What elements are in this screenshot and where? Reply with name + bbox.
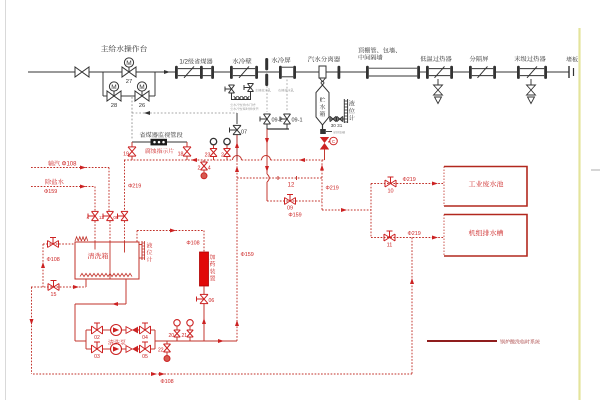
wire separator drain riser <box>266 129 268 174</box>
svg-text:1/2级省煤器: 1/2级省煤器 <box>179 57 213 66</box>
heat-exchanger LT superheater <box>426 66 429 79</box>
arrow dosing right <box>170 229 176 233</box>
arrow riser up1 <box>235 142 239 148</box>
wire main feedwater line <box>28 71 75 73</box>
valve 21 <box>187 330 193 337</box>
arrow riser up3 <box>235 320 239 326</box>
tank bottom elbow <box>322 125 324 131</box>
svg-text:清洗箱: 清洗箱 <box>88 252 109 262</box>
svg-text:Φ219: Φ219 <box>326 184 339 192</box>
svg-text:汽水分离器: 汽水分离器 <box>308 55 341 64</box>
wire relief to header <box>324 150 326 161</box>
svg-text:Φ219: Φ219 <box>403 175 416 183</box>
svg-text:07: 07 <box>241 128 247 136</box>
arrow valve15 right <box>73 285 79 289</box>
arrow bottom right2 <box>159 372 165 376</box>
valve 31 <box>337 116 343 121</box>
wire suction to manifold <box>75 340 86 342</box>
wire dosing drop <box>203 231 205 253</box>
wire inlet drops to tank <box>94 221 96 242</box>
svg-text:04: 04 <box>142 334 148 341</box>
motor valve 27 <box>122 67 136 77</box>
check valve 2 <box>126 346 132 353</box>
motor valve 28 <box>107 91 121 101</box>
arrow into drain tank <box>432 236 438 240</box>
wire drain header U <box>232 92 251 100</box>
svg-text:箱: 箱 <box>319 109 325 118</box>
svg-text:除盐水: 除盐水 <box>45 177 65 186</box>
tank bottom hatch <box>80 273 132 276</box>
arrow monitor flow <box>144 111 150 115</box>
wire dosing line <box>137 230 204 232</box>
valve 11 <box>384 231 395 241</box>
valve 07 <box>236 113 238 124</box>
svg-text:腐蚀指示片: 腐蚀指示片 <box>145 146 174 155</box>
valve 14 tank left <box>48 238 59 248</box>
svg-text:末级过热器: 末级过热器 <box>514 54 546 63</box>
svg-text:锅炉酸洗临时系统: 锅炉酸洗临时系统 <box>500 339 540 346</box>
panel bar lower <box>265 74 268 86</box>
svg-text:30 31: 30 31 <box>331 123 343 129</box>
vessel storage tank <box>316 85 329 125</box>
relief valve below tank <box>320 137 329 143</box>
valve 09 <box>285 195 296 205</box>
valve waterwall drain right <box>244 84 254 92</box>
svg-text:27: 27 <box>126 76 132 85</box>
svg-text:09-1: 09-1 <box>292 116 303 124</box>
svg-text:水冷壁: 水冷壁 <box>232 57 252 66</box>
valve 18 <box>186 142 188 147</box>
svg-text:2: 2 <box>221 151 224 159</box>
gauge 20 <box>174 320 180 326</box>
svg-text:省煤器监视管段: 省煤器监视管段 <box>139 130 183 139</box>
wire pump branch top <box>86 329 92 331</box>
valve 06 <box>197 294 209 303</box>
svg-text:4: 4 <box>86 215 89 221</box>
heat-exchanger final superheater <box>517 66 520 79</box>
svg-text:05: 05 <box>142 353 148 360</box>
wire bypass right leg <box>154 72 156 96</box>
svg-text:28: 28 <box>111 100 117 109</box>
arrow header left2 <box>299 158 305 162</box>
wire drain 09-2 upper <box>266 86 268 112</box>
wire aux steam <box>31 167 109 169</box>
wire waste branch riser <box>370 184 372 238</box>
wire dosing stub to tank <box>136 231 138 243</box>
drain valve final superheater <box>530 79 532 85</box>
gauge sample 24 <box>201 173 207 179</box>
wire pump manifold left <box>85 330 87 349</box>
frame left gray line <box>5 0 7 400</box>
gauge 23 <box>210 138 216 144</box>
wire left drop x33 <box>31 287 33 374</box>
gauge 21 <box>187 320 193 326</box>
arrow aux steam <box>80 166 86 170</box>
valve 19 <box>131 142 133 147</box>
valve 1-14 <box>88 211 99 220</box>
svg-text:中间隔墙: 中间隔墙 <box>358 53 383 62</box>
panel bar upper <box>265 58 268 70</box>
wire dosing to discharge <box>203 304 205 341</box>
arrow tank left up <box>41 262 45 268</box>
svg-text:Φ219: Φ219 <box>408 229 421 237</box>
valve 1-08 <box>118 211 129 220</box>
svg-text:Φ108: Φ108 <box>186 239 199 247</box>
svg-text:13: 13 <box>99 215 105 221</box>
tank vent hatch <box>75 237 88 241</box>
arrow drain down2 <box>265 166 269 172</box>
wire waste riser <box>321 160 323 210</box>
wire line to drain tank <box>371 237 444 239</box>
valve 15 <box>48 281 59 291</box>
valve waterwall drain left <box>225 85 235 93</box>
svg-text:19: 19 <box>123 150 129 158</box>
wire suction drop2 <box>74 304 76 341</box>
valve 22 <box>166 341 168 344</box>
valve 09-2 <box>260 114 271 124</box>
svg-text:Φ108: Φ108 <box>160 377 173 385</box>
svg-text:15: 15 <box>51 290 57 298</box>
wire drain join <box>266 124 268 129</box>
svg-text:M: M <box>111 82 116 91</box>
arrow suction <box>112 302 118 306</box>
wire discharge riser dashed <box>236 160 238 341</box>
wire tank left line <box>43 243 75 245</box>
arrow left drop down <box>30 319 34 325</box>
svg-text:26: 26 <box>139 100 145 109</box>
pipe roof tubes <box>366 66 369 79</box>
svg-text:M: M <box>139 82 144 91</box>
hop header over 07 line <box>233 156 242 161</box>
wire waste horizontal <box>322 209 371 211</box>
wire dosing below <box>203 286 205 294</box>
pump 2 <box>111 344 122 355</box>
wire line 12 <box>237 177 322 179</box>
svg-text:Φ108: Φ108 <box>47 255 60 263</box>
svg-text:18: 18 <box>178 150 184 158</box>
svg-text:10: 10 <box>387 187 393 195</box>
vessel steam separator <box>319 66 326 78</box>
svg-text:水冷屏: 水冷屏 <box>271 56 291 65</box>
wire monitor pipe <box>132 141 151 143</box>
svg-text:11: 11 <box>387 241 393 249</box>
valve 02 <box>92 323 103 334</box>
wire bottom drain line <box>33 373 412 375</box>
wire line 09 <box>267 200 322 202</box>
valve 09-1 <box>280 114 291 124</box>
wire bypass left leg <box>102 72 104 96</box>
wire aux steam drop <box>108 168 110 212</box>
valve 24 <box>203 160 205 162</box>
arrow bottom right1 <box>151 372 157 376</box>
svg-text:20: 20 <box>168 332 174 339</box>
drain header small valves <box>234 96 238 100</box>
wire line to pool <box>371 183 444 185</box>
flange after separator <box>338 66 341 79</box>
wire tank left drop <box>42 244 44 287</box>
box industrial waste pool <box>444 167 527 207</box>
drum section <box>279 66 282 79</box>
drain valve LT superheater <box>437 79 439 85</box>
wire tank suction drop <box>125 279 127 304</box>
wire tank drain stub <box>85 279 87 287</box>
valve 25 <box>224 149 231 157</box>
svg-text:低温过热器: 低温过热器 <box>420 54 452 63</box>
frame right tick <box>591 169 600 171</box>
svg-text:Φ159: Φ159 <box>44 187 57 195</box>
wire monitor dashed line <box>132 112 237 114</box>
heat-exchanger economizer <box>175 66 178 79</box>
arrow waste up <box>320 165 324 171</box>
svg-text:分隔屏: 分隔屏 <box>470 54 490 63</box>
wire drain 09-1 upper <box>286 80 288 113</box>
frame yellow line <box>578 28 580 400</box>
svg-text:23: 23 <box>205 151 211 159</box>
valve 03 <box>92 342 103 353</box>
legend line <box>427 340 497 342</box>
arrow discharge right <box>218 339 224 343</box>
wire demin drop <box>94 187 96 212</box>
svg-text:辅汽 Φ108: 辅汽 Φ108 <box>48 159 77 168</box>
wire pump branch bottom <box>86 348 92 350</box>
svg-text:堵板: 堵板 <box>566 55 578 64</box>
wire drain riser x412 <box>411 238 413 375</box>
svg-text:左侧放水孔: 左侧放水孔 <box>255 88 272 93</box>
arrow header left1 <box>191 158 197 162</box>
arrow into pool <box>432 182 438 186</box>
svg-text:22: 22 <box>158 347 164 354</box>
svg-text:03: 03 <box>94 353 100 360</box>
wire valve15 line <box>31 286 86 288</box>
svg-text:至排放槽: 至排放槽 <box>333 131 345 135</box>
wire bypass line <box>103 95 107 97</box>
svg-text:清洗泵: 清洗泵 <box>108 338 126 347</box>
valve 04 <box>140 323 151 334</box>
corrosion coupon block <box>151 139 168 146</box>
heat-exchanger waterwall <box>230 66 233 79</box>
wire demin water <box>31 186 95 188</box>
tick 12 left <box>277 176 279 180</box>
check valve 1 <box>126 327 132 334</box>
svg-text:Φ159: Φ159 <box>241 250 254 258</box>
valve 23 <box>210 149 217 157</box>
wire tank to gauge <box>329 118 344 120</box>
pump 1 <box>111 325 122 336</box>
svg-text:08: 08 <box>113 215 119 221</box>
svg-text:至水冷壁临时排放管: 至水冷壁临时排放管 <box>230 106 259 111</box>
tank level gauge <box>139 244 142 246</box>
tick 12 right <box>296 176 298 180</box>
valve 20 <box>174 330 180 337</box>
wire discharge riser solid <box>236 135 238 160</box>
arrow drain riser up <box>410 278 414 284</box>
svg-text:机组排水槽: 机组排水槽 <box>469 229 504 239</box>
svg-text:06: 06 <box>209 297 215 304</box>
arrow main line flow <box>164 70 170 74</box>
gauge below 22 <box>166 352 168 355</box>
gauge 25 <box>224 138 230 144</box>
arrow drain down1 <box>265 138 269 144</box>
tank cleaning box <box>75 242 139 279</box>
svg-text:12: 12 <box>288 180 295 189</box>
end plate symbol <box>568 66 570 78</box>
svg-text:M: M <box>126 58 131 67</box>
valve 05 <box>140 342 151 353</box>
svg-text:Φ219: Φ219 <box>128 182 141 190</box>
valve inlet gate valve <box>75 67 89 77</box>
motor valve 26 <box>135 91 149 101</box>
arrow waste right <box>341 208 347 212</box>
box unit drain tank <box>444 215 527 257</box>
svg-text:02: 02 <box>94 334 100 341</box>
hop header over drain line <box>262 156 271 161</box>
arrow dosing up <box>202 318 206 324</box>
valve 10 <box>385 177 396 187</box>
wire bypass drop dashed <box>131 97 133 139</box>
svg-text:21: 21 <box>181 332 187 339</box>
arrow demin water <box>80 185 86 189</box>
arrow riser up2 <box>235 166 239 172</box>
valve 30 <box>330 116 336 121</box>
svg-text:置: 置 <box>209 274 215 283</box>
svg-text:计: 计 <box>146 255 152 264</box>
heat-exchanger divider screen <box>469 66 472 79</box>
svg-text:右侧放水孔: 右侧放水孔 <box>278 88 295 93</box>
wire suction horizontal <box>75 303 126 305</box>
svg-text:4: 4 <box>208 164 211 172</box>
svg-text:工业废水池: 工业废水池 <box>469 180 504 190</box>
wire red header <box>124 159 233 161</box>
valve 1-13 <box>103 211 114 220</box>
wire separator to tank <box>322 84 324 85</box>
svg-text:Φ159: Φ159 <box>288 211 301 219</box>
wire pump discharge <box>155 340 237 342</box>
wire pump manifold right <box>154 330 156 349</box>
svg-text:主给水操作台: 主给水操作台 <box>101 44 148 55</box>
dosing device <box>200 252 209 286</box>
svg-text:2: 2 <box>198 164 201 172</box>
wire header drop <box>124 160 126 211</box>
level gauge ladder <box>343 99 345 123</box>
svg-text:计: 计 <box>349 113 356 122</box>
